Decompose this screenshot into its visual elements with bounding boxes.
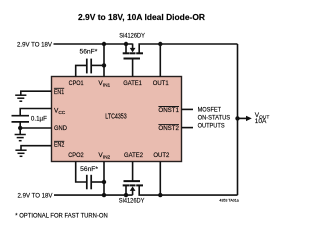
wire: EN2 to ground	[21, 146, 52, 151]
wire: output rail right vertical	[237, 44, 239, 195]
node: junction C3/VIN2	[102, 180, 106, 184]
node: junction OUT1/top rail	[158, 42, 162, 46]
ground symbol (EN1)	[15, 94, 26, 96]
svg-text:* OPTIONAL FOR FAST TURN-ON: * OPTIONAL FOR FAST TURN-ON	[15, 213, 107, 219]
svg-text:GATE2: GATE2	[124, 152, 143, 159]
transistor Q2: drain stub + elbow to output rail	[139, 186, 237, 195]
transistor Q1: source stub	[125, 44, 127, 53]
svg-text:GND: GND	[54, 125, 67, 132]
transistor Q2: body diode triangle	[130, 186, 136, 191]
node: junction C2/GND	[18, 126, 22, 130]
svg-text:ONST1: ONST1	[158, 107, 179, 114]
wire: bottom input rail	[54, 194, 133, 196]
wire: VIN2 vertical	[103, 162, 105, 196]
svg-text:CPO2: CPO2	[68, 152, 84, 159]
capacitor C3 56nF leads	[76, 162, 86, 183]
wire: VOUT arrow	[238, 117, 248, 119]
node: junction C1/VIN1	[102, 63, 106, 67]
svg-text:CPO1: CPO1	[69, 80, 84, 87]
svg-text:LTC4353: LTC4353	[105, 113, 127, 120]
wire: ONST2 stub	[182, 127, 194, 129]
capacitor C1 plates	[86, 59, 88, 74]
svg-text:0.1µF: 0.1µF	[31, 116, 47, 123]
node: junction OUT2/bottom rail	[158, 193, 162, 197]
wire: C2 bottom to GND junction and ground	[19, 122, 21, 135]
transistor Q1: source contact bar	[123, 52, 130, 54]
transistor Q1: drain stub + elbow to output rail	[139, 44, 237, 53]
node: junction Q1 source at rail	[124, 42, 128, 46]
svg-text:4353 TA01a: 4353 TA01a	[219, 199, 239, 203]
transistor Q2: drain contact bar	[136, 184, 143, 186]
svg-text:56nF*: 56nF*	[80, 166, 98, 173]
transistor Q2: source stub	[125, 186, 127, 195]
wire: GND pin	[20, 127, 51, 129]
svg-text:EN2: EN2	[54, 142, 65, 149]
node: junction VOUT tap	[235, 116, 239, 120]
wire: ONST1 stub	[182, 108, 194, 110]
svg-text:2.9V TO 18V: 2.9V TO 18V	[17, 42, 53, 49]
capacitor C3 plates	[86, 175, 88, 190]
ground symbol (GND)	[15, 134, 26, 136]
svg-text:ONST2: ONST2	[158, 125, 179, 132]
wire: top input rail	[54, 43, 133, 45]
wire: OUT2 vertical	[159, 162, 161, 196]
svg-text:OUT1: OUT1	[153, 80, 169, 87]
svg-text:MOSFET: MOSFET	[198, 107, 222, 113]
node: junction VIN2/bottom rail	[102, 193, 106, 197]
svg-text:EN1: EN1	[54, 89, 65, 96]
wire: VCC to C2	[20, 109, 51, 116]
svg-text:56nF*: 56nF*	[80, 48, 98, 55]
svg-text:OUTPUTS: OUTPUTS	[198, 124, 225, 130]
svg-text:OUT2: OUT2	[153, 152, 169, 159]
transistor Q2: source contact bar	[123, 184, 130, 186]
node: junction Q2 source at rail	[124, 193, 128, 197]
transistor Q2: gate bar	[124, 180, 141, 182]
svg-text:Si4126DY: Si4126DY	[119, 197, 145, 204]
transistor Q2: body diode cathode bar	[130, 184, 136, 186]
svg-text:Si4126DY: Si4126DY	[119, 33, 145, 40]
node: junction VIN1/top rail	[102, 42, 106, 46]
transistor Q1: body diode cathode bar	[130, 52, 136, 54]
svg-text:2.9V to 18V, 10A Ideal Diode-O: 2.9V to 18V, 10A Ideal Diode-OR	[78, 13, 205, 22]
transistor Q2: body diode anode lead	[132, 191, 134, 196]
svg-text:10A: 10A	[255, 118, 267, 125]
transistor Q1: drain contact bar	[136, 52, 143, 54]
svg-text:2.9V TO 18V: 2.9V TO 18V	[18, 192, 54, 199]
wire: VIN1 vertical	[103, 44, 105, 77]
transistor Q1: body diode triangle	[130, 48, 136, 53]
wire: OUT1 vertical	[159, 44, 161, 77]
wire: EN1 to ground	[21, 91, 52, 95]
transistor Q1: gate lead to GATE1	[132, 59, 134, 77]
ground symbol (EN2)	[15, 149, 26, 151]
transistor Q1: body diode anode lead	[132, 44, 134, 49]
capacitor C2 0.1uF plates	[12, 115, 30, 117]
transistor Q2: gate lead from GATE2	[132, 162, 134, 182]
svg-text:ON-STATUS: ON-STATUS	[198, 116, 231, 122]
transistor Q1: gate bar	[124, 58, 141, 60]
capacitor C1 56nF leads	[76, 65, 86, 76]
IC U1 LTC4353 body	[52, 77, 182, 162]
svg-text:GATE1: GATE1	[123, 80, 142, 87]
